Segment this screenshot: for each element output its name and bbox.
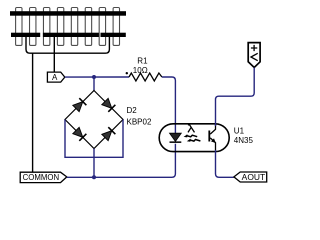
wire: COMMON rail (flag tip to LED cathode) — [67, 144, 176, 178]
svg-text:U1: U1 — [234, 126, 245, 135]
connector top bus bar — [10, 11, 126, 16]
COMMON flag — [20, 172, 67, 182]
supply pinhead connector top right — [248, 43, 260, 68]
connector JP1 pin 4 — [57, 8, 63, 46]
U1 phototransistor emitter lead — [210, 138, 215, 150]
wire: drop from bar2 to node A flag — [53, 37, 55, 72]
D2 diode bottom-left (points to bottom vertex) — [72, 127, 86, 141]
junction on net A at bridge input — [92, 75, 96, 79]
U1 LED triangle — [170, 133, 182, 141]
svg-text:R1: R1 — [137, 56, 148, 65]
U1 phototransistor base bar — [208, 131, 210, 142]
U1 emitter arrowhead — [211, 138, 216, 143]
pin-origin dot left of R1 — [126, 72, 128, 74]
connector JP1 pin 3 — [43, 8, 49, 46]
wire: bridge bottom vertex down to COMMON rail — [93, 149, 95, 178]
U1 LED cathode bar — [170, 141, 182, 143]
U1 light arrow 2 — [189, 140, 200, 142]
connector jumper bar 2 (pins 3-6) — [43, 33, 99, 37]
connector JP1 pin 6 — [85, 8, 91, 46]
svg-text:10Ω: 10Ω — [133, 66, 148, 75]
svg-text:4N35: 4N35 — [234, 136, 254, 145]
U1 phototransistor collector lead — [210, 124, 215, 134]
U1 lambda glyph — [188, 125, 195, 132]
svg-text:A: A — [52, 73, 58, 82]
pinhead plus sign — [251, 45, 257, 51]
connector jumper bar 3 (pins 7-8) — [101, 33, 126, 37]
wire: bar1 drop to bus and up to bar3 — [26, 37, 109, 53]
junction on COMMON rail — [92, 175, 96, 179]
wire: LED cathode through COMMON handled above; emitter to AOUT — [216, 150, 234, 177]
wire: pinhead down and over to U1 collector — [216, 68, 255, 127]
connector JP1 pin 8 — [113, 8, 119, 46]
wire: bridge DC loop (left vertex, bottom, right vertex) — [65, 120, 123, 158]
node A flag — [47, 72, 64, 82]
bridge rectifier D2 diamond outline — [65, 91, 123, 149]
wire: R1 right lead to LED anode — [162, 77, 176, 133]
connector JP1 pin 2 — [30, 8, 36, 46]
wire: net A horizontal (flag to resistor) — [65, 76, 129, 78]
pinhead chevron — [251, 53, 258, 60]
connector JP1 pin 5 — [71, 8, 77, 46]
svg-text:D2: D2 — [127, 106, 138, 115]
connector JP1 pin 7 — [99, 8, 105, 46]
svg-text:KBP02: KBP02 — [127, 118, 152, 127]
connector JP1 pin 1 — [16, 8, 22, 46]
U1 light arrow 1 — [186, 135, 197, 137]
D2 diode top-right (points to right vertex) — [101, 98, 115, 112]
wire: stub net A down to bridge top vertex — [93, 77, 95, 91]
D2 diode top-left (points to top vertex) — [72, 98, 86, 112]
svg-text:AOUT: AOUT — [242, 173, 266, 182]
wire: drop from bus to COMMON flag — [32, 53, 34, 172]
resistor R1 zigzag — [129, 73, 162, 81]
connector jumper bar 1 (pins 1-2) — [11, 33, 40, 37]
svg-text:COMMON: COMMON — [23, 173, 60, 182]
optocoupler U1 body — [159, 124, 229, 152]
AOUT flag — [234, 172, 267, 182]
D2 diode bottom-right (points to right vertex) — [101, 127, 115, 141]
